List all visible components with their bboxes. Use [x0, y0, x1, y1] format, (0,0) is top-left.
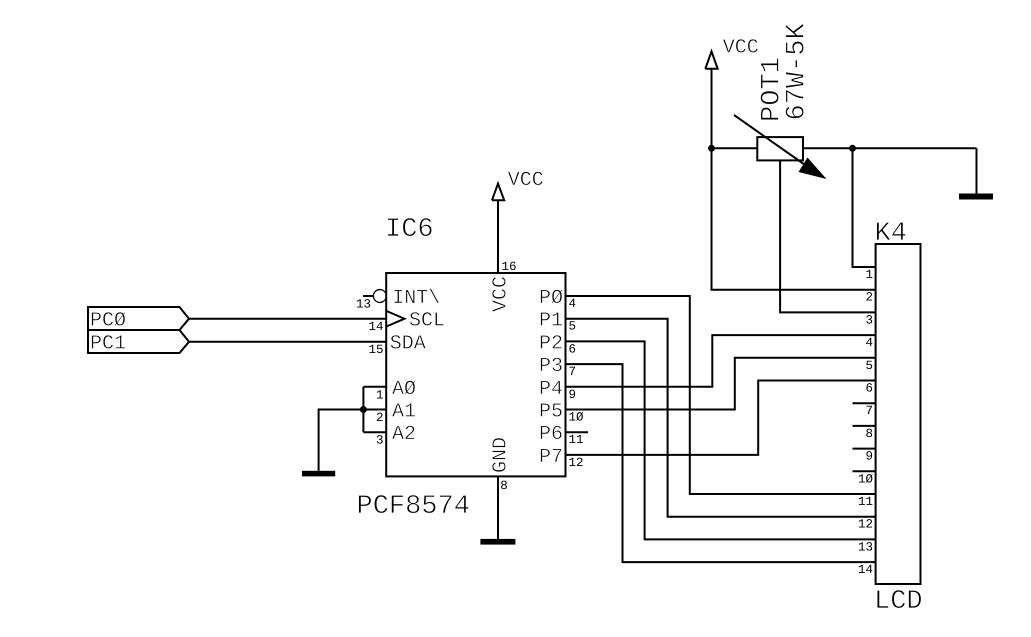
pin A0 1 [363, 378, 416, 403]
svg-text:13: 13 [356, 298, 371, 312]
svg-text:11: 11 [569, 433, 584, 447]
svg-text:3: 3 [376, 434, 384, 448]
node PC1 flag [88, 330, 189, 355]
svg-text:14: 14 [368, 320, 383, 334]
svg-text:P5: P5 [539, 401, 563, 424]
connector K4 body [876, 244, 921, 584]
svg-text:6: 6 [865, 382, 873, 396]
svg-text:9: 9 [569, 388, 577, 402]
svg-text:1: 1 [376, 388, 384, 402]
wire P3 to K4 pin 14 [566, 364, 876, 562]
svg-text:5: 5 [569, 320, 577, 334]
wire VCC to K4 pin 2 [712, 148, 876, 289]
ground (A pins) [302, 471, 335, 477]
pin P6 11 [539, 423, 584, 447]
svg-text:VCC: VCC [490, 276, 513, 312]
node junction A1 [360, 406, 367, 413]
svg-text:6: 6 [569, 342, 577, 356]
pin P3 7 [539, 355, 576, 379]
svg-text:12: 12 [569, 456, 584, 470]
wire P7 to K4 pin 6 [566, 381, 876, 455]
pin A2 3 [363, 423, 416, 448]
svg-text:12: 12 [858, 518, 873, 532]
svg-text:P6: P6 [539, 423, 563, 446]
pin P4 9 [539, 378, 576, 402]
svg-text:SDA: SDA [390, 332, 426, 355]
potentiometer POT1 body [757, 137, 803, 160]
node PC0 flag [88, 307, 189, 333]
svg-text:13: 13 [858, 540, 873, 554]
svg-text:IC6: IC6 [385, 215, 434, 245]
pin VCC 16 [490, 200, 517, 312]
svg-text:11: 11 [858, 495, 873, 509]
wire wiper to K4 pin 3 [780, 160, 876, 312]
svg-text:4: 4 [569, 297, 577, 311]
wire P4 to K4 pin 4 [566, 335, 876, 387]
svg-text:GND: GND [490, 437, 513, 473]
svg-text:2: 2 [376, 411, 384, 425]
pin K4-9 stub [853, 449, 876, 464]
svg-text:8: 8 [500, 479, 508, 493]
wire rail down to ground [976, 148, 978, 193]
pin P5 10 [539, 401, 584, 425]
svg-text:14: 14 [858, 563, 873, 577]
wire P1 to K4 pin 12 [566, 319, 876, 517]
svg-text:P7: P7 [539, 446, 563, 469]
svg-text:67W-5K: 67W-5K [783, 22, 813, 120]
ground (IC6 pin 8) [480, 539, 515, 545]
wire VCC down to rail [711, 69, 713, 149]
wire P2 to K4 pin 13 [566, 341, 876, 539]
power VCC (top right) [705, 37, 758, 69]
node junction GND rail [849, 145, 856, 152]
pin INT\ 13 [356, 287, 440, 312]
wire P0 to K4 pin 11 [566, 296, 876, 494]
op-amp U1 : IC6 PCF8574 body [386, 273, 565, 476]
wire P5 to K4 pin 5 [566, 358, 876, 410]
svg-text:SCL: SCL [409, 310, 445, 333]
svg-text:P4: P4 [539, 378, 563, 401]
svg-text:2: 2 [865, 291, 873, 305]
pin A1 2 [363, 401, 416, 426]
pin P0 4 [539, 287, 576, 311]
svg-text:VCC: VCC [723, 37, 759, 60]
power VCC (above IC6) [492, 169, 544, 200]
svg-text:1Ø: 1Ø [569, 411, 585, 425]
svg-text:LCD: LCD [874, 587, 923, 617]
svg-text:16: 16 [502, 260, 517, 274]
svg-text:15: 15 [368, 343, 383, 357]
svg-text:PCF8574: PCF8574 [357, 492, 470, 522]
svg-text:8: 8 [865, 427, 873, 441]
svg-text:5: 5 [865, 359, 873, 373]
svg-text:AØ: AØ [392, 378, 416, 401]
svg-text:P3: P3 [539, 355, 563, 378]
wire GND junction to K4 pin 1 [853, 148, 876, 267]
potentiometer wiper arrow [734, 115, 827, 179]
svg-text:1Ø: 1Ø [858, 472, 874, 486]
svg-text:INT\: INT\ [392, 287, 440, 310]
svg-text:PC1: PC1 [90, 332, 126, 355]
wire A0-A2 tie [362, 387, 364, 432]
wire junction to ground [319, 410, 364, 471]
svg-text:1: 1 [865, 268, 873, 282]
pin GND 8 [490, 437, 513, 539]
svg-text:9: 9 [865, 450, 873, 464]
pin P1 5 [539, 310, 576, 334]
wire rail left (VCC to POT1) [712, 147, 758, 149]
wire PC1 to SDA [189, 341, 386, 343]
wire P6 stub [566, 431, 589, 433]
svg-text:P1: P1 [539, 310, 563, 333]
wire PC0 to SCL [189, 318, 386, 320]
pin P7 12 [539, 446, 584, 470]
ground (top right) [959, 194, 993, 200]
svg-text:PØ: PØ [539, 287, 563, 310]
svg-text:K4: K4 [875, 219, 907, 249]
svg-text:VCC: VCC [508, 169, 544, 192]
svg-text:7: 7 [865, 404, 873, 418]
svg-text:A1: A1 [392, 401, 416, 424]
pin K4-7 stub [853, 403, 876, 418]
svg-text:P2: P2 [539, 332, 563, 355]
wire rail right (POT1 to ground) [803, 147, 977, 149]
svg-text:7: 7 [569, 365, 577, 379]
pin SDA 15 [368, 332, 425, 357]
pin K4-8 stub [853, 426, 876, 441]
pin P2 6 [539, 332, 576, 356]
pin K4-10 stub [853, 471, 876, 486]
pin SCL 14 [368, 310, 445, 334]
svg-text:3: 3 [865, 313, 873, 327]
svg-text:4: 4 [865, 336, 873, 350]
svg-text:A2: A2 [392, 423, 416, 446]
node junction VCC rail [708, 145, 715, 152]
